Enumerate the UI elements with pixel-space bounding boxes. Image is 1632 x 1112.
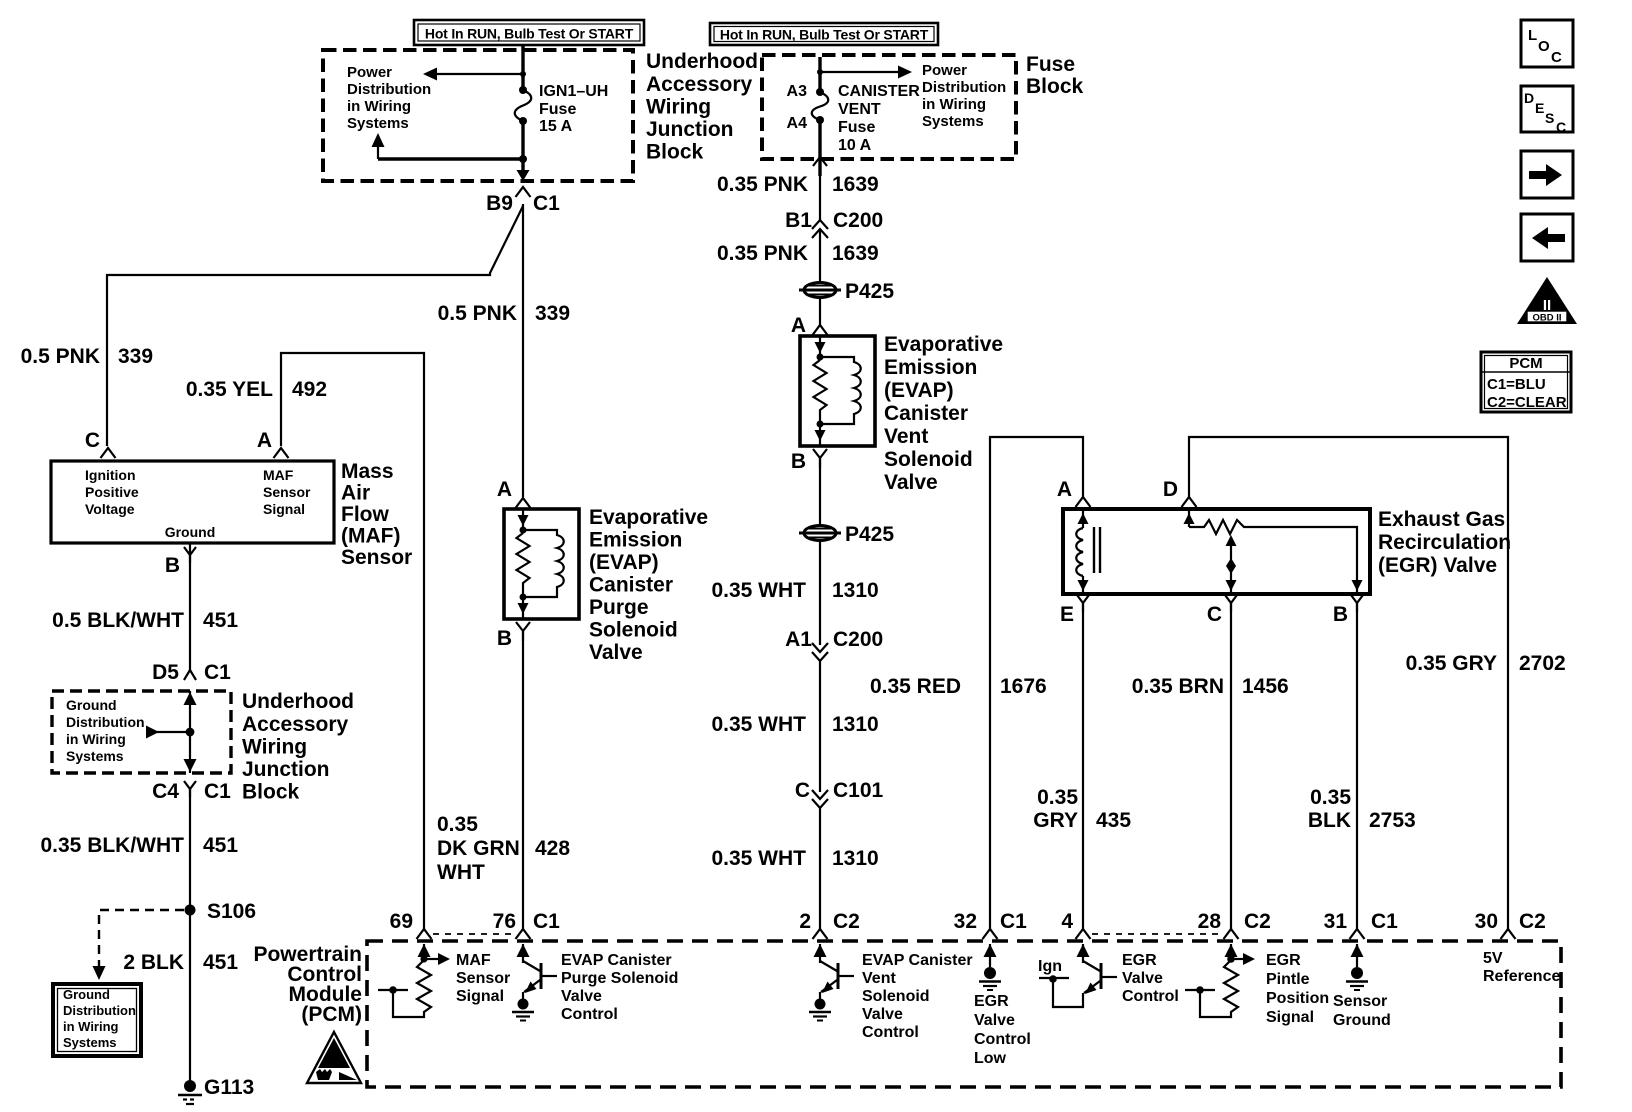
svg-text:A: A (791, 314, 806, 337)
fuse IGN1-UH 15A (515, 86, 532, 125)
svg-text:Evaporative: Evaporative (884, 333, 1003, 356)
svg-text:EGR: EGR (1122, 952, 1157, 969)
svg-text:10 A: 10 A (838, 137, 872, 154)
svg-text:1676: 1676 (1000, 675, 1047, 698)
svg-text:Valve: Valve (884, 471, 938, 494)
svg-text:C1: C1 (533, 192, 560, 215)
svg-text:EGR: EGR (974, 993, 1009, 1010)
PCM internal: ground (pin 32) (979, 944, 1001, 990)
pin E of EGR valve (1077, 595, 1089, 612)
svg-text:C2=CLEAR: C2=CLEAR (1487, 394, 1567, 411)
label: CANISTER VENT Fuse 10 A (838, 83, 920, 154)
svg-text:Ground: Ground (165, 524, 216, 540)
label: Mass Air Flow (MAF) Sensor (341, 460, 412, 569)
pin C4 of connector C1 (184, 781, 196, 797)
junction block box: Underhood Accessory Wiring Junction Block (dashed) (52, 691, 231, 773)
svg-text:Positive: Positive (85, 484, 139, 500)
svg-text:435: 435 (1096, 809, 1131, 832)
wire: branch to up arrow (378, 157, 523, 160)
pin 69 of PCM connector C1 (417, 929, 432, 939)
wire: 0.5 BLK/WHT 451 (189, 543, 191, 670)
svg-text:Control: Control (1122, 988, 1179, 1005)
svg-text:C200: C200 (833, 628, 883, 651)
svg-text:IGN1–UH: IGN1–UH (539, 83, 608, 100)
label: Power Distribution in Wiring Systems (left fuse box) (347, 64, 431, 132)
pin B of MAF sensor (184, 547, 196, 563)
svg-text:Reference: Reference (1483, 968, 1560, 985)
svg-text:0.35 GRY: 0.35 GRY (1406, 652, 1497, 675)
svg-text:Position: Position (1266, 990, 1329, 1007)
svg-text:76: 76 (493, 910, 516, 933)
EGR pintle position potentiometer (1184, 509, 1363, 594)
svg-text:Solenoid: Solenoid (862, 988, 930, 1005)
wire: 0.35 PNK 1639 from fuse block to C200 (819, 162, 821, 222)
svg-text:C: C (1551, 49, 1562, 66)
wire: feed into IGN1-UH fuse (521, 45, 524, 90)
svg-text:Emission: Emission (884, 356, 977, 379)
svg-text:Ground: Ground (1333, 1012, 1391, 1029)
svg-text:Underhood: Underhood (242, 690, 354, 713)
svg-text:Underhood: Underhood (646, 50, 758, 73)
splice P425 (lower) (799, 526, 841, 541)
svg-text:1639: 1639 (832, 242, 879, 265)
svg-text:B: B (1333, 603, 1348, 626)
svg-text:C200: C200 (833, 209, 883, 232)
svg-text:Distribution: Distribution (63, 1003, 136, 1018)
svg-text:Valve: Valve (561, 988, 602, 1005)
svg-text:0.5 BLK/WHT: 0.5 BLK/WHT (52, 609, 184, 632)
svg-text:D: D (1163, 478, 1178, 501)
svg-text:Valve: Valve (974, 1012, 1015, 1029)
EGR solenoid coil (1076, 509, 1100, 594)
solenoid coil and winding (vent valve) (814, 336, 861, 446)
pin B of EVAP vent solenoid (813, 449, 827, 468)
svg-text:2 BLK: 2 BLK (123, 951, 184, 974)
svg-text:D5: D5 (152, 661, 179, 684)
wire: 0.35 BLK 2753 (EGR B to PCM 31) (1356, 603, 1358, 929)
banner: Hot In RUN, Bulb Test Or START (left) (414, 20, 644, 45)
pin 28 of PCM connector C2 (1224, 929, 1239, 939)
svg-text:Sensor: Sensor (456, 970, 510, 987)
svg-text:0.35 WHT: 0.35 WHT (711, 713, 806, 736)
svg-text:31: 31 (1324, 910, 1348, 933)
svg-text:0.35 WHT: 0.35 WHT (711, 847, 806, 870)
svg-text:Canister: Canister (589, 574, 673, 597)
svg-text:D: D (1524, 90, 1534, 106)
svg-text:1310: 1310 (832, 713, 879, 736)
dashed link pin 69 to pin 76 (433, 933, 514, 935)
svg-text:Flow: Flow (341, 503, 389, 526)
node: junction to up-arrow branch (519, 155, 527, 163)
label: 5V Reference (pin 30) (1483, 950, 1560, 985)
icon: DESC button (1521, 86, 1573, 135)
svg-text:2702: 2702 (1519, 652, 1566, 675)
svg-text:(EVAP): (EVAP) (884, 379, 954, 402)
label: EVAP Canister Vent Solenoid Valve Control (862, 952, 973, 1041)
pin A of EVAP purge solenoid (516, 498, 531, 508)
fuse block box: Fuse Block (dashed, right) (762, 55, 1016, 159)
pin C of EGR valve (1225, 595, 1237, 612)
svg-text:PCM: PCM (1509, 355, 1542, 372)
label: Exhaust Gas Recirculation (EGR) Valve (1378, 508, 1511, 577)
svg-text:Voltage: Voltage (85, 501, 135, 517)
svg-text:EVAP Canister: EVAP Canister (561, 952, 672, 969)
banner: Hot In RUN, Bulb Test Or START (right) (710, 23, 938, 45)
svg-text:C: C (795, 779, 810, 802)
wire: 0.35 WHT 1310 down to PCM pin 2 (819, 808, 821, 929)
svg-text:S106: S106 (207, 900, 256, 923)
PCM internal: transistor driver (pin 76) (512, 944, 557, 1021)
svg-text:2: 2 (799, 910, 811, 933)
svg-text:CANISTER: CANISTER (838, 83, 920, 100)
svg-text:Evaporative: Evaporative (589, 506, 708, 529)
svg-text:Junction: Junction (646, 118, 734, 141)
ESD sensitive symbol (307, 1032, 361, 1083)
svg-text:Pintle: Pintle (1266, 971, 1310, 988)
svg-text:0.35 RED: 0.35 RED (870, 675, 961, 698)
pin A of EGR valve (1076, 497, 1091, 507)
pin 4 of PCM (1076, 929, 1091, 939)
node: junction to power distribution arrow (520, 71, 526, 77)
svg-text:C1: C1 (1000, 910, 1027, 933)
svg-text:B: B (791, 450, 806, 473)
svg-text:Mass: Mass (341, 460, 394, 483)
label: Evaporative Emission (EVAP) Canister Purge Solenoid Valve (589, 506, 708, 664)
wire: 0.35 WHT 1310 to C200 (819, 540, 821, 645)
PCM internal: transistor driver with Ign rail (pin 4) (1038, 944, 1117, 1007)
pin D of EGR valve (1182, 497, 1197, 507)
EGR valve box (1063, 509, 1370, 594)
svg-text:1456: 1456 (1242, 675, 1289, 698)
svg-text:4: 4 (1061, 910, 1073, 933)
wire: dashed branch from S106 to ground distribution (99, 910, 184, 966)
svg-text:DK GRN: DK GRN (437, 837, 520, 860)
svg-text:(EGR) Valve: (EGR) Valve (1378, 554, 1497, 577)
label: Sensor Ground (1333, 993, 1391, 1029)
svg-text:C: C (1207, 603, 1222, 626)
PCM internal: EGR pintle position input (pin 28) (1185, 944, 1255, 1017)
svg-text:C2: C2 (1244, 910, 1271, 933)
fuse block box: Underhood Accessory Wiring Junction Block (dashed) (323, 50, 633, 181)
svg-text:Fuse: Fuse (838, 119, 875, 136)
svg-text:VENT: VENT (838, 101, 881, 118)
pin C of MAF sensor (101, 448, 116, 458)
svg-text:Canister: Canister (884, 402, 968, 425)
label: EGR Valve Control (1122, 952, 1179, 1005)
svg-text:Fuse: Fuse (539, 101, 576, 118)
svg-text:Distribution: Distribution (347, 81, 431, 98)
svg-text:339: 339 (118, 345, 153, 368)
pin 2 of PCM connector C2 (813, 929, 828, 939)
pin B of EVAP purge solenoid (516, 622, 530, 641)
label: Power Distribution in Wiring Systems (right fuse box) (922, 62, 1006, 130)
wire: 0.35 BRN 1456 (EGR C to PCM 28) (1230, 603, 1232, 929)
svg-text:Wiring: Wiring (646, 96, 711, 119)
node S106 (185, 905, 196, 916)
svg-text:GRY: GRY (1033, 809, 1078, 832)
wire: 0.5 PNK 339 down to EVAP purge valve (522, 204, 524, 497)
wire: 5V reference feed (pin D loop to PCM 30) (1189, 437, 1508, 929)
svg-text:WHT: WHT (437, 861, 485, 884)
pin B1 of connector C200 (812, 220, 828, 238)
svg-text:0.35 PNK: 0.35 PNK (717, 173, 808, 196)
svg-text:Signal: Signal (263, 501, 305, 517)
EVAP canister purge solenoid valve box (504, 509, 579, 619)
wire: vent B down to splice P425 (lower) (819, 458, 821, 526)
svg-text:Valve: Valve (589, 641, 643, 664)
label: Ground Distribution in Wiring Systems (junction block) (66, 697, 145, 764)
svg-text:2753: 2753 (1369, 809, 1416, 832)
svg-text:Valve: Valve (862, 1006, 903, 1023)
wire: arrow down exiting fuse box (517, 170, 530, 181)
svg-text:0.35 YEL: 0.35 YEL (186, 378, 273, 401)
svg-text:in Wiring: in Wiring (63, 1019, 119, 1034)
svg-text:(PCM): (PCM) (301, 1003, 362, 1026)
svg-text:Accessory: Accessory (242, 713, 349, 736)
svg-text:Block: Block (1026, 75, 1084, 98)
svg-text:in Wiring: in Wiring (347, 98, 411, 115)
svg-text:S: S (1545, 110, 1554, 126)
svg-text:1310: 1310 (832, 847, 879, 870)
svg-text:in Wiring: in Wiring (66, 731, 126, 747)
pin A of EVAP vent solenoid (813, 325, 828, 335)
svg-text:Ground: Ground (63, 987, 110, 1002)
label: Underhood Accessory Wiring Junction Block (top) (646, 50, 758, 164)
svg-text:B: B (165, 554, 180, 577)
legend box: PCM C1=BLU C2=CLEAR (1481, 352, 1571, 412)
svg-text:P425: P425 (845, 280, 894, 303)
label: EGR Valve Control Low (974, 993, 1031, 1067)
svg-text:0.5 PNK: 0.5 PNK (21, 345, 100, 368)
svg-text:A: A (497, 478, 512, 501)
ground G113 (178, 1080, 202, 1104)
label: IGN1-UH Fuse 15 A (539, 83, 608, 135)
solenoid coil and winding (purge valve) (517, 509, 564, 619)
MAF sensor box (51, 461, 334, 543)
icon: LOC button (1521, 20, 1573, 67)
svg-text:Power: Power (922, 62, 967, 79)
svg-text:C: C (85, 429, 100, 452)
svg-text:C4: C4 (152, 780, 179, 803)
svg-text:Sensor: Sensor (1333, 993, 1387, 1010)
svg-text:Systems: Systems (63, 1035, 116, 1050)
svg-text:Ign: Ign (1038, 958, 1062, 975)
svg-text:in Wiring: in Wiring (922, 96, 986, 113)
svg-text:MAF: MAF (456, 952, 491, 969)
svg-text:Systems: Systems (66, 748, 124, 764)
svg-text:OBD II: OBD II (1532, 313, 1561, 324)
svg-text:BLK: BLK (1308, 809, 1351, 832)
svg-text:0.35: 0.35 (1310, 786, 1351, 809)
svg-text:Block: Block (646, 141, 704, 164)
svg-text:Purge: Purge (589, 596, 649, 619)
svg-text:Exhaust Gas: Exhaust Gas (1378, 508, 1505, 531)
pin 30 of PCM connector C2 (1501, 929, 1516, 939)
svg-text:Systems: Systems (347, 115, 409, 132)
svg-text:451: 451 (203, 834, 238, 857)
svg-text:Hot In RUN, Bulb Test Or START: Hot In RUN, Bulb Test Or START (720, 27, 929, 43)
svg-text:15 A: 15 A (539, 118, 573, 135)
wire: 0.35 DK GRN WHT 428 down to PCM pin 76 (522, 631, 524, 929)
wire: fuse output down (521, 121, 524, 174)
svg-text:C1: C1 (533, 910, 560, 933)
label: Fuse Block (1026, 53, 1084, 98)
svg-text:30: 30 (1475, 910, 1498, 933)
pin A of MAF sensor (274, 448, 289, 458)
wire: through junction block with arrows (189, 691, 191, 773)
svg-text:C: C (1556, 119, 1566, 135)
label: Underhood Accessory Wiring Junction Block (mid) (242, 690, 354, 804)
wire: 0.35 PNK 1639 from C200 to splice P425 (819, 229, 821, 283)
svg-text:O: O (1538, 38, 1550, 55)
svg-text:0.35: 0.35 (1037, 786, 1078, 809)
svg-text:C101: C101 (833, 779, 884, 802)
pin B9 of connector C1 (516, 187, 531, 197)
label: EGR Pintle Position Signal (1266, 952, 1329, 1026)
label: MAF Sensor Signal (456, 952, 510, 1005)
svg-text:C2: C2 (1519, 910, 1546, 933)
wire: arrow to Power Distribution (right) (820, 71, 899, 73)
pin 76 of PCM connector C1 (516, 929, 531, 939)
svg-text:32: 32 (954, 910, 977, 933)
svg-text:Distribution: Distribution (922, 79, 1006, 96)
PCM internal: MAF sensor signal input (pin 69) (378, 944, 450, 1017)
splice P425 (upper) (799, 283, 841, 298)
label: Powertrain Control Module (PCM) (253, 943, 362, 1026)
pin 31 of PCM connector C1 (1350, 929, 1365, 939)
svg-text:B1: B1 (785, 209, 812, 232)
PCM internal: transistor driver (pin 2) (809, 944, 854, 1021)
svg-text:Air: Air (341, 482, 370, 505)
svg-text:Power: Power (347, 64, 392, 81)
svg-text:Signal: Signal (1266, 1009, 1314, 1026)
svg-text:339: 339 (535, 302, 570, 325)
label: EVAP Canister Purge Solenoid Valve Control (561, 952, 678, 1023)
svg-text:A1: A1 (785, 628, 812, 651)
dashed link pin 4 to pin 28 (1092, 933, 1222, 935)
pin B of EGR valve (1351, 595, 1363, 612)
svg-text:428: 428 (535, 837, 570, 860)
pin D5 of connector C1 (184, 670, 196, 680)
wire: 0.35 YEL 492 from MAF A up and over to PCM pin 69 (281, 353, 424, 929)
svg-text:Vent: Vent (862, 970, 896, 987)
svg-text:Solenoid: Solenoid (884, 448, 973, 471)
svg-text:(MAF): (MAF) (341, 525, 400, 548)
svg-text:(EVAP): (EVAP) (589, 551, 659, 574)
svg-text:0.35 PNK: 0.35 PNK (717, 242, 808, 265)
svg-text:A4: A4 (787, 115, 808, 132)
svg-text:Hot In RUN, Bulb Test Or START: Hot In RUN, Bulb Test Or START (425, 26, 634, 42)
svg-text:Control: Control (561, 1006, 618, 1023)
svg-text:Control: Control (862, 1024, 919, 1041)
svg-text:A3: A3 (787, 83, 808, 100)
svg-text:0.35 BRN: 0.35 BRN (1132, 675, 1224, 698)
svg-text:Emission: Emission (589, 529, 682, 552)
svg-text:Systems: Systems (922, 113, 984, 130)
svg-text:E: E (1535, 100, 1544, 116)
wire: arrow to Power Distribution (left) (431, 73, 523, 75)
pin C of connector C101 (812, 790, 828, 808)
wire: 0.35 WHT 1310 to C101 (819, 661, 821, 792)
icon: previous arrow button (1521, 214, 1573, 261)
svg-text:Purge Solenoid: Purge Solenoid (561, 970, 678, 987)
svg-text:Distribution: Distribution (66, 714, 145, 730)
wire: diagonal branch from B9/C1 to MAF ignition feed (107, 206, 523, 446)
svg-text:Ground: Ground (66, 697, 117, 713)
pin A1 of connector C200 (812, 643, 828, 661)
svg-text:B9: B9 (486, 192, 513, 215)
EVAP canister vent solenoid valve box (800, 336, 875, 446)
svg-text:Fuse: Fuse (1026, 53, 1075, 76)
svg-text:Solenoid: Solenoid (589, 619, 678, 642)
wire: EGR valve control low feed (pin A loop to PCM 32) (990, 437, 1083, 929)
svg-text:EGR: EGR (1266, 952, 1301, 969)
svg-text:Control: Control (974, 1031, 1031, 1048)
wire: splice to EVAP vent solenoid pin A (819, 297, 821, 325)
ground distribution box (Ground Distribution in Wiring Systems) (53, 984, 141, 1056)
svg-text:Sensor: Sensor (263, 484, 311, 500)
svg-text:A: A (257, 429, 272, 452)
svg-text:Low: Low (974, 1050, 1007, 1067)
svg-text:Junction: Junction (242, 758, 330, 781)
pin 32 of PCM connector C1 (983, 929, 998, 939)
svg-text:C2: C2 (833, 910, 860, 933)
svg-text:0.35 WHT: 0.35 WHT (711, 579, 806, 602)
PCM box: Powertrain Control Module (dashed) (367, 941, 1561, 1087)
svg-text:1639: 1639 (832, 173, 879, 196)
svg-text:0.35 BLK/WHT: 0.35 BLK/WHT (40, 834, 184, 857)
svg-text:E: E (1060, 603, 1074, 626)
PCM internal: sensor ground (pin 31) (1346, 944, 1368, 990)
svg-text:Vent: Vent (884, 425, 928, 448)
icon: next arrow button (1521, 151, 1573, 198)
svg-text:EVAP Canister: EVAP Canister (862, 952, 973, 969)
wire: 0.35 BLK/WHT 451 (189, 789, 191, 1086)
svg-text:Wiring: Wiring (242, 736, 307, 759)
svg-text:P425: P425 (845, 523, 894, 546)
svg-text:0.35: 0.35 (437, 813, 478, 836)
wire: fuse output down through box edge (818, 120, 821, 176)
svg-text:C1: C1 (1371, 910, 1398, 933)
svg-text:Signal: Signal (456, 988, 504, 1005)
svg-text:Accessory: Accessory (646, 73, 753, 96)
svg-text:C1: C1 (204, 661, 231, 684)
svg-text:Valve: Valve (1122, 970, 1163, 987)
svg-text:69: 69 (390, 910, 413, 933)
label: Evaporative Emission (EVAP) Canister Vent Solenoid Valve (884, 333, 1003, 494)
svg-text:Block: Block (242, 781, 300, 804)
icon: OBD II triangle (1517, 277, 1577, 324)
svg-text:492: 492 (292, 378, 327, 401)
svg-text:451: 451 (203, 951, 238, 974)
svg-text:Sensor: Sensor (341, 546, 412, 569)
svg-text:G113: G113 (204, 1076, 254, 1099)
fuse CANISTER VENT 10A, pins A3/A4 (812, 88, 829, 124)
svg-text:Ignition: Ignition (85, 467, 136, 483)
svg-text:C1: C1 (204, 780, 231, 803)
svg-text:C1=BLU: C1=BLU (1487, 376, 1546, 393)
svg-text:5V: 5V (1483, 950, 1503, 967)
svg-text:451: 451 (203, 609, 238, 632)
wire: 0.35 GRY 435 (EGR E to PCM 4) (1082, 603, 1084, 929)
svg-text:1310: 1310 (832, 579, 879, 602)
svg-text:Recirculation: Recirculation (1378, 531, 1511, 554)
wire: ground distribution stub arrow to node (155, 731, 190, 733)
svg-text:B: B (497, 627, 512, 650)
wire: feed into CANISTER VENT fuse (818, 57, 821, 92)
svg-text:28: 28 (1198, 910, 1222, 933)
svg-text:A: A (1057, 478, 1072, 501)
